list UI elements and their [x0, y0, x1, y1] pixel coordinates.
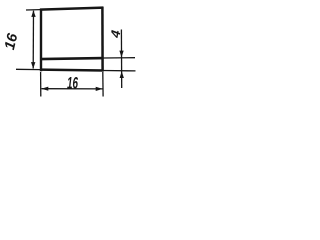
bottom extension line right (vertical): [102, 72, 104, 97]
bottom dim arrowhead left: [41, 87, 48, 91]
bottom dim arrowhead right: [96, 87, 103, 91]
right dim arrowhead down (to strip top): [119, 51, 123, 58]
square profile right edge (thick): [101, 7, 104, 72]
square profile bottom edge (thick): [40, 68, 104, 71]
left dim arrowhead down: [31, 62, 35, 69]
bottom edge right extension line (thin): [103, 70, 136, 72]
square profile left edge (thick): [40, 9, 42, 72]
left dim arrowhead up: [31, 10, 35, 17]
bottom dimension line 16 (horizontal): [42, 88, 103, 90]
strip top edge right extension line (thin): [103, 57, 135, 59]
bottom extension line left (vertical): [40, 72, 42, 97]
right dim arrowhead up (to bottom edge): [120, 71, 124, 78]
bottom edge left extension line (thin): [16, 68, 41, 70]
top edge left extension line (thin): [26, 9, 41, 11]
svg-text:16: 16: [67, 73, 78, 93]
square profile top edge (thick, slightly slanted): [40, 8, 103, 10]
left dimension line 16 (vertical): [32, 11, 34, 69]
strip top edge inside square (thick): [40, 58, 104, 59]
right dimension line 4 (vertical through strip): [120, 30, 122, 89]
